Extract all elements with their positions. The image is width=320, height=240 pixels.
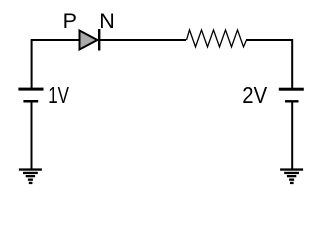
svg-text:N: N <box>99 9 115 33</box>
svg-text:2V: 2V <box>242 82 267 108</box>
svg-text:1V: 1V <box>48 82 69 108</box>
svg-text:P: P <box>63 9 77 33</box>
